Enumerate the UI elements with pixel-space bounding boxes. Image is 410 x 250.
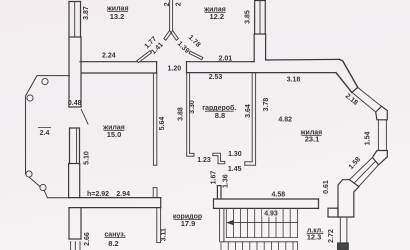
svg-text:1.23: 1.23	[197, 157, 211, 164]
top right corner diagonal solid wall	[336, 59, 358, 92]
staircase right window	[340, 217, 347, 243]
window W2 left exterior	[70, 128, 80, 164]
corridor bottom wall right	[214, 199, 319, 208]
room label koridor 17.9	[173, 214, 202, 229]
diagonal window top-right bay	[352, 88, 382, 113]
Y branch left	[164, 31, 171, 41]
svg-text:4.93: 4.93	[264, 211, 278, 218]
bay column circles	[26, 78, 48, 190]
vertical window right bay	[378, 120, 386, 151]
door stub 0.61	[328, 208, 338, 217]
svg-text:2: 2	[164, 2, 171, 6]
partition P1 wardrobe right	[245, 73, 256, 166]
room label garderob 8.8	[202, 104, 236, 120]
svg-text:12.2: 12.2	[209, 12, 224, 21]
svg-text:3.18: 3.18	[287, 77, 301, 84]
svg-text:5.10: 5.10	[83, 151, 90, 165]
room label zhilaya 23.1	[300, 129, 323, 143]
svg-text:3.30: 3.30	[189, 100, 196, 114]
svg-text:3.78: 3.78	[263, 98, 270, 112]
window W4 room 12.2 right wall	[255, 1, 266, 35]
bathroom left exterior wall	[69, 208, 81, 239]
svg-text:2.53: 2.53	[209, 74, 223, 81]
diagonal window lower-right bay	[349, 158, 378, 187]
svg-text:3.88: 3.88	[177, 107, 184, 121]
wall segment left exterior lower	[69, 164, 80, 198]
svg-text:3.11: 3.11	[160, 228, 167, 241]
partition stub above bathroom wall	[153, 188, 157, 198]
svg-text:1.45: 1.45	[228, 166, 242, 173]
door leaf right 1.39	[189, 51, 203, 60]
central wall band right segment	[187, 59, 340, 72]
staircase right bottom pier	[338, 243, 349, 250]
svg-text:1.30: 1.30	[228, 151, 242, 158]
svg-text:3.64: 3.64	[245, 104, 252, 118]
wall stub above corridor wall	[217, 186, 221, 199]
svg-text:1.54: 1.54	[365, 131, 372, 145]
svg-text:3.85: 3.85	[245, 10, 252, 24]
svg-text:3.87: 3.87	[83, 6, 90, 20]
svg-text:0.48: 0.48	[68, 100, 82, 107]
svg-text:2.66: 2.66	[84, 232, 91, 246]
svg-text:2: 2	[175, 2, 182, 6]
bathroom top wall	[69, 198, 161, 208]
white box under 0.48 label	[70, 99, 81, 106]
bay corner block T	[376, 106, 388, 120]
Y branch right	[171, 31, 178, 41]
svg-text:2.72: 2.72	[328, 229, 335, 243]
wall pier below window W4	[252, 34, 266, 62]
room label sanuz 8.2	[104, 232, 125, 248]
wall jog piece	[213, 153, 225, 164]
svg-text:23.1: 23.1	[305, 135, 320, 144]
svg-text:13.2: 13.2	[110, 12, 125, 21]
bay corner block C staircase wall	[338, 180, 359, 217]
room label l.kl 12.3	[307, 227, 324, 241]
door leaf room 15.0	[81, 109, 88, 124]
room label zhilaya 15.0	[102, 125, 125, 140]
partition room15/corridor	[153, 73, 156, 165]
partition P0 wardrobe left	[187, 73, 194, 157]
svg-text:8.2: 8.2	[108, 239, 118, 248]
staircase upper flight	[226, 208, 297, 237]
svg-text:4.82: 4.82	[278, 116, 292, 123]
thin wall between rooms 13.2 and 12.2	[170, 0, 173, 31]
svg-text:15.0: 15.0	[107, 130, 122, 139]
svg-text:5.64: 5.64	[159, 117, 166, 131]
svg-text:2.94: 2.94	[116, 191, 130, 198]
window W1 top-left exterior wall	[69, 2, 81, 38]
svg-text:1.36: 1.36	[223, 174, 230, 188]
bathroom right partition 3.11	[157, 208, 161, 243]
svg-text:2.01: 2.01	[219, 56, 233, 63]
svg-text:2.4: 2.4	[40, 130, 50, 137]
staircase lower flight	[221, 242, 298, 250]
bay corner block B	[372, 151, 387, 165]
svg-text:2.24: 2.24	[102, 53, 116, 60]
svg-text:1.67: 1.67	[211, 171, 218, 185]
staircase hall left wall	[220, 208, 224, 241]
door leaf left 1.41	[137, 51, 152, 63]
room label zhilaya 12.2	[203, 7, 226, 22]
svg-text:8.8: 8.8	[215, 111, 225, 120]
balcony label 2.4	[38, 128, 51, 137]
svg-text:12.3: 12.3	[307, 232, 322, 241]
svg-text:17.9: 17.9	[181, 219, 196, 228]
central wall band left segment	[80, 62, 157, 73]
white box under 4.93 label	[262, 209, 281, 216]
bay balcony outline left	[26, 76, 70, 198]
svg-text:1.20: 1.20	[167, 65, 181, 72]
wall segment left exterior upper	[69, 37, 81, 107]
room label zhilaya 13.2	[106, 5, 129, 21]
window W3 bottom-left	[71, 242, 80, 250]
svg-text:h=2.92: h=2.92	[87, 191, 109, 198]
stair direction arrow	[226, 220, 298, 225]
svg-text:4.58: 4.58	[271, 192, 285, 199]
svg-text:0.61: 0.61	[323, 180, 330, 194]
